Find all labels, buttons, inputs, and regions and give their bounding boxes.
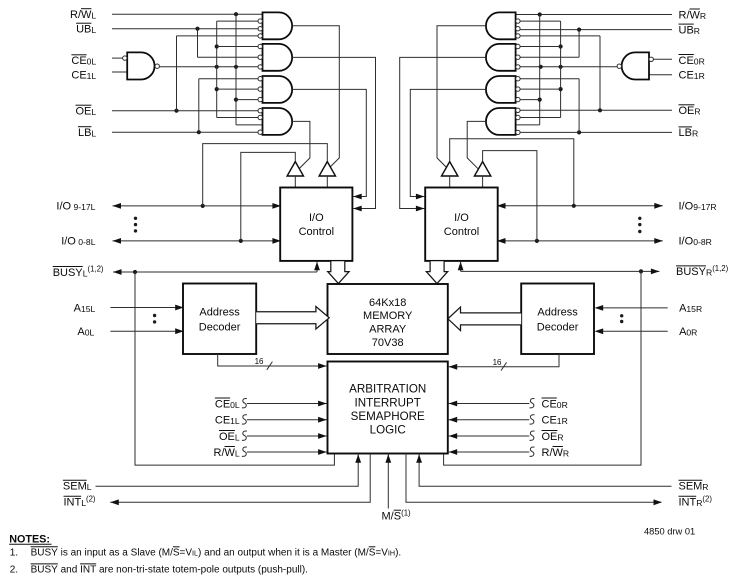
nand gate U1 — [127, 52, 154, 79]
svg-text:L: L — [91, 25, 96, 35]
junction nand-out / RW column — [234, 65, 238, 69]
junction LB-L vertical — [197, 130, 201, 134]
wire G1 output to buffer enable — [292, 26, 339, 167]
svg-text:W: W — [225, 447, 236, 459]
bus arrow right decoder to memory — [448, 307, 521, 331]
wire CE0L to arbitration — [247, 403, 327, 405]
squiggle OEL — [242, 431, 247, 440]
svg-text:(1,2): (1,2) — [712, 264, 728, 273]
wire CE to gate R4 input — [520, 117, 561, 119]
svg-text:(2): (2) — [86, 494, 96, 503]
wire OE to gate R1 input — [520, 35, 600, 37]
svg-text:IH: IH — [388, 549, 395, 558]
wire OE-L — [112, 110, 258, 112]
wire R/W-R column vertical — [539, 15, 541, 125]
svg-text:LB: LB — [78, 127, 91, 139]
arrowhead CE1L arbitration — [318, 417, 327, 423]
and gate G4 — [263, 108, 293, 135]
and gate R4 — [486, 108, 516, 135]
junction I/O 0-8R feed — [535, 239, 539, 243]
svg-text:MEMORY: MEMORY — [363, 310, 413, 322]
svg-text:W: W — [81, 9, 92, 21]
ellipsis dots right A — [620, 314, 623, 317]
svg-text:(1): (1) — [401, 508, 411, 517]
wire LB to gate R3 input — [520, 78, 579, 80]
svg-text:15R: 15R — [686, 304, 702, 314]
and gate G2 — [263, 44, 293, 71]
svg-text:R: R — [563, 448, 569, 458]
arrowhead INT-R out — [654, 499, 663, 505]
squiggle CE0L — [242, 399, 247, 408]
svg-text:1R: 1R — [557, 416, 568, 426]
arrowhead G3 into I/O control — [353, 194, 362, 200]
wire A15R — [596, 307, 668, 309]
svg-text:L: L — [87, 482, 92, 492]
wire OEL to arbitration — [247, 435, 327, 437]
wire CE to gate R2 input — [520, 46, 561, 48]
svg-text:9-17L: 9-17L — [71, 202, 96, 212]
junction UB-R vertical — [577, 28, 581, 32]
svg-text:L: L — [91, 107, 96, 117]
nand gate U2 — [622, 52, 649, 79]
squiggle R/W-L — [242, 447, 247, 456]
wire I/O 9-17L to buffer B2 — [203, 144, 328, 206]
wire CE to gate R1 input — [520, 20, 561, 22]
svg-text:0R: 0R — [686, 328, 697, 338]
svg-text:R: R — [702, 482, 708, 492]
svg-text:9-17R: 9-17R — [693, 202, 716, 212]
arrowhead BUSY-R into I/O control — [458, 262, 464, 271]
svg-text:CE: CE — [542, 398, 557, 410]
wire SEM-L — [96, 454, 359, 486]
wire R/W-R — [516, 14, 672, 16]
svg-text:R: R — [700, 11, 706, 21]
svg-text:L: L — [91, 11, 96, 21]
arrowhead R/W-L arbitration — [318, 449, 327, 455]
buffer B4 — [474, 162, 490, 176]
svg-text:LB: LB — [679, 127, 692, 139]
buffer B2 — [319, 162, 335, 176]
wire UB to gate G2 input — [198, 56, 259, 58]
wire BUSY-L — [113, 271, 317, 273]
svg-text:64Kx18: 64Kx18 — [369, 297, 406, 309]
arrowhead OER arbitration — [449, 433, 458, 439]
wire BUSY-L up into I/O control — [316, 262, 318, 272]
svg-text:I/O: I/O — [679, 201, 694, 213]
svg-text:BUSY: BUSY — [31, 564, 59, 575]
svg-text:L: L — [235, 448, 240, 458]
and gate G1 — [263, 12, 293, 39]
svg-text:I/O: I/O — [56, 201, 71, 213]
bus arrow right I/O control to memory — [426, 261, 447, 283]
svg-text:OE: OE — [219, 431, 235, 443]
arrowhead I/O 9-17L into box — [272, 203, 281, 209]
wire I/O 0-8L to buffer B1 — [241, 152, 295, 241]
wire CE1L to nand — [112, 71, 127, 73]
wire R/W to gate G3 input — [236, 99, 258, 101]
wire LB-R distribution vertical — [578, 79, 580, 133]
wire LB to gate G3 input — [199, 78, 258, 80]
wire INT-L — [110, 454, 370, 503]
junction I/O 9-17L feed — [201, 204, 205, 208]
wire UB-L distribution vertical — [197, 29, 199, 58]
bus arrow left I/O control to memory — [328, 261, 349, 283]
svg-text:M/: M/ — [382, 511, 395, 523]
junction UB-L vertical — [195, 27, 199, 31]
wire R/W-L to arbitration — [247, 451, 327, 453]
squiggle R/W-R — [530, 447, 535, 456]
wire R/W column vertical — [235, 14, 237, 125]
wire CE to gate G1 input — [217, 20, 258, 22]
junction R/W-L vertical — [234, 12, 238, 16]
I/O control box right — [425, 188, 498, 261]
svg-text:16: 16 — [255, 357, 264, 366]
arrowhead I/O 9-17R out — [654, 203, 663, 209]
junction OE-R vertical — [598, 108, 602, 112]
svg-text:Control: Control — [299, 226, 334, 238]
wire OE-R — [520, 109, 672, 111]
slash 16-bus right — [501, 362, 507, 370]
wire R/W-L — [112, 13, 263, 15]
arrowhead R2 into I/O control — [416, 206, 425, 212]
arrowhead CE1R arbitration — [449, 417, 458, 423]
wire A0L — [110, 330, 182, 332]
wire LB-L — [112, 131, 258, 133]
wire I/O 9-17L — [113, 205, 281, 207]
svg-text:CE: CE — [71, 70, 86, 82]
address decoder box right — [521, 284, 594, 355]
svg-text:0R: 0R — [694, 56, 705, 66]
and gate R3 — [486, 76, 516, 103]
junction nandR-out / CE column — [559, 65, 563, 69]
svg-text:0-8L: 0-8L — [76, 237, 96, 247]
arrowhead I/O 0-8L out — [113, 238, 122, 244]
wire R/W-R to arbitration — [449, 451, 530, 453]
svg-text:L: L — [235, 432, 240, 442]
wire R/W to gate R3 input — [520, 99, 540, 101]
wire A15L — [110, 307, 182, 309]
arrowhead 16-bus left — [318, 363, 327, 369]
arrowhead I/O 9-17R into box — [497, 203, 506, 209]
wire R4 output to buffer enable — [467, 121, 486, 168]
svg-text:) and an output when it is a M: ) and an output when it is a Master (M/ — [198, 547, 369, 558]
svg-text:(2): (2) — [702, 494, 712, 503]
wire M/S input — [387, 454, 389, 508]
wire I/O 9-17R to buffer B3 — [450, 139, 574, 206]
junction BUSY-R vertical — [639, 269, 643, 273]
svg-text:INT: INT — [679, 497, 697, 509]
wire CE1R to nand — [649, 74, 672, 76]
svg-text:15L: 15L — [81, 304, 96, 314]
wire BUSY-R to arbitration — [444, 271, 641, 465]
svg-text:).: ). — [395, 547, 401, 558]
junction LB-R vertical — [577, 130, 581, 134]
svg-text:L: L — [91, 129, 96, 139]
slash 16-bus left — [267, 362, 273, 370]
svg-text:OE: OE — [542, 431, 558, 443]
svg-text:R: R — [692, 129, 698, 139]
arrowhead INT-L out — [110, 499, 119, 505]
svg-text:1.: 1. — [10, 547, 18, 558]
wire BUSY-R — [461, 270, 660, 272]
svg-text:CE: CE — [679, 70, 694, 82]
wire G4 output to buffer enable — [292, 121, 310, 168]
memory array box — [328, 284, 448, 354]
svg-text:=V: =V — [180, 547, 193, 558]
wire nand U2 output — [520, 66, 617, 68]
arrowhead I/O 0-8R out — [654, 238, 663, 244]
wire LB-R — [520, 131, 672, 133]
wire CE to gate G4 input — [217, 117, 258, 119]
wire OE-R distribution vertical — [599, 36, 601, 110]
svg-text:Address: Address — [537, 307, 578, 319]
wire CE1L to arbitration — [247, 419, 327, 421]
wire CE to gate G2 input — [217, 46, 258, 48]
arrowhead A0L — [175, 328, 184, 334]
junction I/O 9-17R feed — [572, 204, 576, 208]
svg-text:INT: INT — [80, 564, 96, 575]
svg-text:=V: =V — [375, 547, 388, 558]
svg-text:NOTES:: NOTES: — [9, 533, 50, 545]
wire BUSY-R up into I/O control — [460, 262, 462, 272]
wire R/W to gate R4 input — [516, 124, 540, 126]
svg-text:OE: OE — [76, 106, 92, 118]
arrowhead A0R — [595, 328, 604, 334]
svg-text:CE: CE — [215, 415, 230, 427]
svg-text:is an input as a Slave (M/: is an input as a Slave (M/ — [58, 547, 173, 558]
arrowhead A15R — [595, 305, 604, 311]
wire B4 to I/O control — [482, 176, 484, 188]
svg-text:0L: 0L — [230, 400, 240, 410]
wire CE to gate R3 input — [520, 88, 561, 90]
wire 16-bus right — [449, 354, 559, 367]
svg-text:R: R — [694, 107, 700, 117]
and gate R2 — [486, 44, 516, 71]
and gate G3 — [263, 76, 293, 103]
wire BUSY-L to arbitration — [135, 272, 334, 465]
svg-text:SEM: SEM — [63, 481, 87, 493]
svg-text:70V38: 70V38 — [372, 337, 404, 349]
arrowhead I/O 0-8R into box — [497, 238, 506, 244]
wire SEM-R — [419, 454, 671, 486]
svg-text:0L: 0L — [85, 328, 95, 338]
junction R/W-R to R3 — [538, 98, 542, 102]
wire UB-R distribution vertical — [578, 30, 580, 58]
and gate R1 — [486, 12, 516, 39]
ellipsis dots right I/O — [638, 217, 641, 220]
bus arrow left decoder to memory — [256, 307, 329, 330]
wire nand U1 output — [159, 66, 258, 68]
junction I/O 0-8L feed — [239, 239, 243, 243]
arrowhead M/S into arbitration — [385, 454, 391, 463]
svg-text:1L: 1L — [230, 416, 240, 426]
arrowhead OEL arbitration — [318, 433, 327, 439]
wire R3 output to I/O control — [410, 89, 486, 196]
svg-text:UB: UB — [679, 24, 694, 36]
buffer B1 — [287, 162, 303, 176]
wire CE to gate G3 input — [217, 88, 258, 90]
svg-text:0R: 0R — [557, 400, 568, 410]
wire UB-R — [520, 29, 672, 31]
wire R2 output to I/O control — [400, 57, 486, 208]
buffer B3 — [442, 162, 458, 176]
junction nandR-out / RW column — [539, 65, 543, 69]
svg-text:are non-tri-state totem-pole o: are non-tri-state totem-pole outputs (pu… — [96, 564, 308, 575]
wire B3 to I/O control — [449, 176, 451, 188]
junction CE-R to R2 — [559, 44, 563, 48]
svg-text:0-8R: 0-8R — [693, 237, 712, 247]
wire INT-R — [406, 454, 661, 503]
svg-text:and: and — [58, 564, 80, 575]
svg-text:Decoder: Decoder — [199, 322, 241, 334]
squiggle CE1L — [242, 415, 247, 424]
svg-text:BUSY: BUSY — [53, 267, 84, 279]
arrowhead BUSY-L out — [113, 269, 122, 275]
arrowhead SEM-R into arbitration — [416, 454, 422, 463]
wire G3 output to I/O control — [292, 89, 366, 196]
arrowhead I/O 0-8L into box — [272, 238, 281, 244]
I/O control box left — [280, 188, 352, 261]
wire 16-bus left — [218, 354, 327, 366]
svg-text:ARRAY: ARRAY — [369, 324, 407, 336]
arrowhead I/O 9-17L out — [113, 203, 122, 209]
wire UB-L — [112, 28, 258, 30]
svg-text:LOGIC: LOGIC — [370, 423, 406, 436]
squiggle CE1R — [530, 415, 535, 424]
address decoder box left — [183, 284, 256, 355]
svg-text:R: R — [557, 432, 563, 442]
svg-text:SEMAPHORE: SEMAPHORE — [351, 410, 425, 423]
svg-text:UB: UB — [76, 24, 91, 36]
wire OE to gate G1 input — [177, 35, 259, 37]
wire OER to arbitration — [449, 435, 530, 437]
svg-text:1L: 1L — [87, 71, 97, 81]
wire I/O 9-17R — [498, 205, 663, 207]
arrowhead G2 into I/O control — [353, 206, 362, 212]
svg-text:1R: 1R — [694, 71, 705, 81]
junction nand-out / CE column — [215, 65, 219, 69]
arrowhead CE0L arbitration — [318, 401, 327, 407]
wire R/W to gate G4 input — [236, 124, 263, 126]
wire CE1R to arbitration — [449, 419, 530, 421]
junction BUSY-L vertical — [133, 270, 137, 274]
svg-text:I/O: I/O — [454, 212, 469, 224]
svg-text:(1,2): (1,2) — [88, 265, 104, 274]
wire CE-R column vertical — [560, 21, 562, 117]
svg-text:OE: OE — [679, 105, 695, 117]
svg-text:4850 drw 01: 4850 drw 01 — [644, 527, 695, 537]
wire B2 to I/O control — [326, 176, 328, 188]
svg-text:Control: Control — [444, 226, 479, 238]
ellipsis dots left A — [153, 314, 156, 317]
svg-text:CE: CE — [71, 55, 86, 67]
arrowhead R/W-R arbitration — [449, 449, 458, 455]
svg-text:INTERRUPT: INTERRUPT — [355, 396, 421, 409]
svg-text:W: W — [553, 447, 564, 459]
arbitration logic box — [328, 362, 448, 454]
svg-text:16: 16 — [493, 358, 502, 367]
svg-text:W: W — [690, 9, 701, 21]
wire CE0L to nand — [112, 57, 122, 59]
svg-text:R: R — [694, 26, 700, 36]
wire I/O 0-8R — [498, 240, 663, 242]
wire UB to gate R2 input — [520, 56, 579, 58]
wire I/O 0-8L — [113, 240, 281, 242]
wire A0R — [596, 330, 668, 332]
junction R/W to G3 — [234, 98, 238, 102]
squiggle CE0R — [530, 399, 535, 408]
arrowhead A15L — [175, 305, 184, 311]
ellipsis dots left I/O — [134, 217, 137, 220]
junction R/W-R vertical — [538, 12, 542, 16]
wire LB-L distribution vertical — [198, 79, 200, 133]
svg-text:CE: CE — [542, 415, 557, 427]
arrowhead BUSY-L into I/O control — [314, 262, 320, 271]
wire I/O 0-8R to buffer B4 — [483, 151, 537, 241]
squiggle OER — [530, 431, 535, 440]
junction CE to G3 — [215, 87, 219, 91]
svg-text:Address: Address — [199, 307, 240, 319]
wire G2 output to I/O control — [292, 57, 375, 208]
wire B1 to I/O control — [294, 176, 296, 188]
wire CE0R to arbitration — [449, 403, 530, 405]
svg-text:CE: CE — [215, 398, 230, 410]
svg-text:ARBITRATION: ARBITRATION — [349, 383, 426, 396]
svg-text:2.: 2. — [10, 564, 18, 575]
svg-text:I/O: I/O — [61, 236, 76, 248]
arrowhead 16-bus right — [449, 364, 458, 370]
arrowhead BUSY-R out — [651, 269, 660, 275]
svg-text:SEM: SEM — [679, 481, 703, 493]
svg-text:S: S — [394, 511, 401, 523]
junction CE-R to R3 — [559, 87, 563, 91]
arrowhead R3 into I/O control — [416, 194, 425, 200]
wire OE-L distribution vertical — [176, 36, 178, 111]
svg-text:I/O: I/O — [679, 236, 694, 248]
svg-text:BUSY: BUSY — [31, 547, 59, 558]
wire CE0R to nand — [653, 58, 672, 60]
wire CE column vertical — [216, 21, 218, 117]
arrowhead CE0R arbitration — [449, 401, 458, 407]
svg-text:BUSY: BUSY — [676, 266, 707, 278]
svg-text:I/O: I/O — [309, 212, 324, 224]
junction OE-L vertical — [174, 109, 178, 113]
arrowhead SEM-L into arbitration — [355, 454, 361, 463]
junction CE to G2 — [215, 44, 219, 48]
svg-text:0L: 0L — [87, 57, 97, 67]
svg-text:Decoder: Decoder — [537, 322, 579, 334]
wire R1 output to buffer enable — [437, 26, 486, 167]
svg-text:INT: INT — [64, 497, 82, 509]
svg-text:CE: CE — [679, 55, 694, 67]
